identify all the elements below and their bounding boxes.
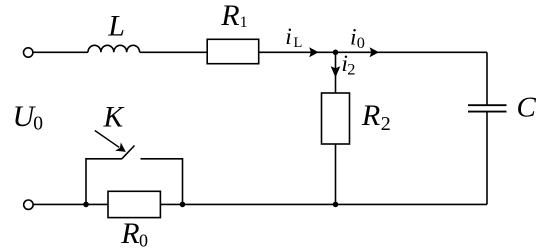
svg-text:L: L: [107, 10, 125, 43]
node junction J2: [83, 202, 89, 208]
current arrow i0: [370, 47, 379, 57]
node junction J4: [333, 202, 339, 208]
svg-text:0: 0: [357, 33, 365, 52]
label R1: [220, 0, 247, 32]
wire: [259, 51, 336, 53]
wire: [33, 51, 88, 53]
current arrow iL: [309, 47, 318, 57]
svg-text:i: i: [285, 24, 292, 50]
resistor R2: [322, 93, 350, 144]
wire: [160, 203, 182, 205]
svg-text:0: 0: [139, 230, 148, 250]
label i0: [350, 24, 365, 51]
wire: [335, 144, 337, 204]
inductor L: [88, 45, 140, 52]
node junction J3: [180, 202, 186, 208]
label iL: [285, 24, 302, 51]
label R2: [361, 99, 391, 135]
svg-text:2: 2: [381, 113, 391, 135]
svg-text:i: i: [350, 24, 357, 50]
resistor R1: [207, 39, 259, 63]
wire: [85, 158, 87, 204]
svg-text:C: C: [517, 92, 537, 124]
wire: [486, 52, 488, 104]
wire: [486, 113, 488, 205]
svg-text:2: 2: [347, 59, 355, 78]
svg-text:0: 0: [33, 114, 43, 135]
wire: [183, 203, 488, 205]
switch K: [86, 146, 183, 159]
label i2: [341, 51, 355, 78]
wire: [335, 52, 337, 93]
switch pointer arrow: [95, 131, 126, 152]
svg-text:K: K: [103, 102, 125, 134]
wire: [33, 203, 86, 205]
svg-text:R: R: [220, 0, 239, 32]
label R0: [120, 217, 148, 250]
wire: [336, 51, 488, 53]
svg-text:1: 1: [240, 14, 248, 31]
svg-text:R: R: [361, 99, 380, 132]
wire: [140, 51, 208, 53]
current arrow i2: [331, 66, 341, 77]
label U0: [13, 100, 43, 135]
svg-text:R: R: [120, 217, 139, 250]
terminal T2 (bottom input, open circle): [24, 200, 33, 209]
node junction J1: [333, 50, 339, 56]
wire: [182, 158, 184, 204]
resistor R0: [108, 191, 160, 217]
terminal T1 (top input, open circle): [24, 48, 33, 57]
svg-text:L: L: [294, 35, 303, 51]
capacitor C: [468, 105, 507, 111]
wire: [86, 203, 108, 205]
